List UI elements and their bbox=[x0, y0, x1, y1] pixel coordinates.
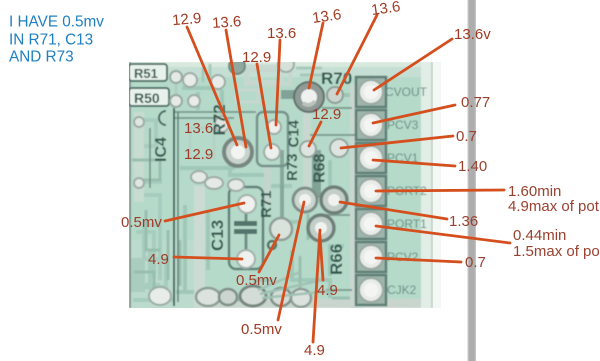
wire 1.40 to pad PCV1 bbox=[373, 160, 455, 166]
svg-text:4.9: 4.9 bbox=[304, 342, 325, 359]
wire 1.60min to pad PORT2 bbox=[376, 190, 504, 191]
pale right strip of photo bbox=[421, 62, 433, 308]
wire 4.9 mid to pad P bbox=[320, 236, 323, 280]
wire 1.36 to pad O bbox=[340, 202, 447, 219]
PCB photo base bbox=[129, 56, 433, 310]
wire dark strips bbox=[312, 150, 321, 198]
resistor R51 box bbox=[129, 64, 167, 81]
wire 0.5mv left to pad R71 top bbox=[165, 203, 244, 221]
wire 13.6 to big pad bbox=[309, 23, 323, 88]
pad S bbox=[270, 218, 292, 240]
wire 0.77 to pad PCV3 bbox=[373, 105, 455, 123]
pad small B bbox=[170, 95, 182, 107]
wire 4.9 left to pad R71 bottom bbox=[174, 257, 242, 259]
wire wide light strips bbox=[194, 186, 205, 310]
wire 0.7 to pad PCV2 bbox=[376, 258, 461, 262]
pad PORT2 bbox=[356, 176, 386, 206]
svg-text:13.6: 13.6 bbox=[212, 13, 242, 32]
svg-text:12.9: 12.9 bbox=[184, 146, 213, 163]
svg-text:0.44min: 0.44min bbox=[513, 227, 566, 244]
scrollbar bbox=[468, 0, 477, 361]
svg-text:I HAVE 0.5mv: I HAVE 0.5mv bbox=[9, 14, 104, 31]
wire 13.6v to pad CVOUT bbox=[374, 39, 452, 90]
svg-text:0.7: 0.7 bbox=[465, 254, 486, 271]
pad R72 (test point, 12.9/13.6) bbox=[224, 138, 252, 166]
photo left dark edge bbox=[129, 62, 131, 308]
pad C14 lower bbox=[264, 144, 280, 160]
wire horizontal traces under 13.6 bbox=[174, 108, 355, 290]
capacitor C13 / resistor R71 outline bbox=[229, 187, 263, 269]
svg-text:13.6: 13.6 bbox=[267, 25, 296, 42]
svg-text:1.40: 1.40 bbox=[458, 158, 487, 175]
svg-text:13.6v: 13.6v bbox=[454, 26, 491, 43]
pad small A bbox=[170, 71, 182, 83]
pad PCV1 bbox=[356, 143, 386, 173]
wire traces left light strip bbox=[134, 112, 144, 202]
pad top edge partials bbox=[229, 58, 245, 74]
trace rounded loop upper center bbox=[246, 70, 290, 84]
capacitor C14 outline bbox=[257, 112, 288, 166]
wire traces left region bbox=[133, 120, 173, 300]
measured value labels inside photo (dark red) bbox=[121, 106, 341, 299]
via ring bbox=[268, 241, 276, 249]
pad L (0.7 pointer) bbox=[330, 139, 348, 157]
wire maze left darker bbox=[132, 160, 352, 310]
svg-text:1.36: 1.36 bbox=[449, 213, 478, 230]
resistor R50 box bbox=[129, 88, 169, 106]
svg-text:4.9: 4.9 bbox=[148, 251, 169, 268]
leader lines (orange) bbox=[165, 15, 510, 342]
wire trace loops top bbox=[236, 90, 258, 102]
capacitor C13 body bbox=[234, 221, 257, 226]
wire 0.5mv bottom to pad N bbox=[278, 202, 304, 320]
pad CJK2 bbox=[356, 275, 386, 305]
pad R71 top (0.5mv) bbox=[238, 195, 256, 213]
pad left edge 2 bbox=[134, 178, 144, 188]
pad PCV3 bbox=[356, 110, 386, 140]
svg-text:0.7: 0.7 bbox=[456, 128, 477, 145]
pad near 13.6 bbox=[215, 116, 229, 132]
wire 13.6 to pad right of R70 bbox=[337, 15, 377, 94]
wire 0.5mv center to pad S bbox=[259, 235, 279, 272]
wire 0.44min to pad PORT1 bbox=[376, 226, 510, 243]
svg-text:12.9: 12.9 bbox=[242, 49, 271, 66]
svg-text:0.5mv: 0.5mv bbox=[121, 214, 162, 231]
wire 13.6 to pad R72 bbox=[226, 30, 246, 147]
svg-text:0.5mv: 0.5mv bbox=[236, 272, 277, 289]
wire 4.9 bottom to pad P bbox=[313, 230, 320, 342]
svg-text:12.9: 12.9 bbox=[171, 10, 202, 29]
pad K (12.9 pointer) bbox=[300, 141, 316, 157]
photo grain overlay bbox=[129, 62, 433, 308]
IC U-IC4 outline bbox=[173, 108, 175, 306]
pad PCV2 bbox=[356, 242, 386, 272]
svg-text:0.77: 0.77 bbox=[461, 94, 490, 111]
svg-text:13.6: 13.6 bbox=[184, 120, 213, 137]
wire 12.9 to pad K bbox=[309, 122, 321, 146]
net labels right column bbox=[385, 85, 428, 297]
pad O (1.36 pointer) bbox=[321, 187, 347, 213]
wire stubs to connector pads bbox=[350, 92, 358, 290]
pad C bbox=[183, 73, 197, 87]
pad left edge 1 bbox=[134, 117, 144, 127]
wire 0.7 to pad L bbox=[341, 136, 453, 148]
pad E bbox=[211, 75, 225, 89]
wire 13.6 to pad C14 upper bbox=[276, 40, 280, 125]
pad N (0.5mv bottom pointer) bbox=[293, 188, 317, 212]
pad PORT1 bbox=[356, 209, 386, 239]
svg-text:0.5mv: 0.5mv bbox=[241, 321, 282, 338]
svg-text:AND R73: AND R73 bbox=[9, 49, 74, 66]
wire traces center bbox=[176, 88, 344, 300]
svg-text:1.5max of pot: 1.5max of pot bbox=[513, 243, 600, 260]
measured value labels on white (red) bbox=[171, 0, 491, 359]
wire 12.9 to pad R72 bbox=[187, 27, 237, 145]
svg-text:IN R71, C13: IN R71, C13 bbox=[9, 32, 93, 49]
wire 12.9 to pad C14 lower bbox=[257, 64, 271, 148]
node big pad left of R70 bbox=[294, 82, 324, 112]
oval pads row bbox=[191, 171, 207, 183]
svg-text:4.9: 4.9 bbox=[317, 282, 338, 299]
pad D bbox=[188, 95, 200, 107]
svg-text:4.9max of pot: 4.9max of pot bbox=[508, 198, 600, 215]
bottom row pads bbox=[149, 287, 171, 305]
pad CVOUT bbox=[356, 77, 386, 107]
pad right of R70 bbox=[327, 87, 343, 103]
pad R71 bottom (4.9) bbox=[237, 250, 255, 268]
pad P (4.9 pointer) bbox=[308, 215, 334, 241]
note blue text bbox=[9, 14, 104, 66]
svg-text:12.9: 12.9 bbox=[312, 106, 341, 123]
pad C14 upper bbox=[267, 120, 281, 134]
photo faint right fringe bbox=[433, 62, 441, 308]
wire fan traces bbox=[258, 272, 330, 298]
